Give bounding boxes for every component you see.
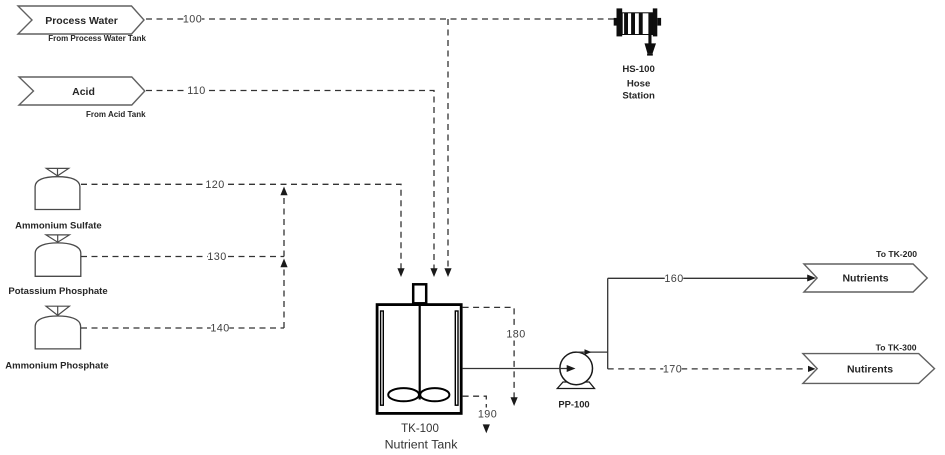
hopper Ammonium Phosphate [5,306,108,371]
svg-text:190: 190 [478,409,497,421]
svg-text:Nutirents: Nutirents [847,363,893,375]
svg-text:100: 100 [183,14,202,26]
wire stream 100 horizontal [146,13,614,26]
svg-text:140: 140 [210,323,229,335]
tank TK-100 [377,284,461,451]
hopper Potassium Phosphate [8,235,107,297]
hose station HS-100 [614,8,661,101]
svg-text:Ammonium Phosphate: Ammonium Phosphate [5,360,108,371]
wire merge 140 up into 130 [280,259,287,329]
hopper Ammonium Sulfate [15,168,102,231]
wire stream 190 [463,396,498,433]
off-page connector Nutirents To TK-300 [803,343,935,384]
svg-text:PP-100: PP-100 [558,399,589,410]
svg-text:120: 120 [205,179,224,191]
svg-text:Process Water: Process Water [45,15,118,27]
svg-text:Nutrients: Nutrients [842,273,888,285]
wire pump discharge [576,278,608,369]
svg-text:Ammonium Sulfate: Ammonium Sulfate [15,220,102,231]
off-page connector Acid [19,77,146,119]
svg-text:130: 130 [207,251,226,263]
wire stream 120 [81,178,405,277]
svg-text:From Acid Tank: From Acid Tank [86,110,146,119]
wire tank outlet to pump [463,365,576,372]
wire merge 130 up into 120 [280,187,287,257]
wire stream 100 branch down to tank [444,19,451,277]
svg-text:170: 170 [663,363,682,375]
wire stream 110 [146,84,438,277]
svg-text:TK-100: TK-100 [401,423,439,435]
svg-text:Station: Station [622,90,655,101]
svg-text:HS-100: HS-100 [622,64,655,75]
off-page connector Process Water [18,6,147,43]
wire stream 180 [463,307,526,406]
svg-text:110: 110 [187,85,205,97]
wire stream 140 [81,322,284,335]
pump PP-100 [557,352,594,410]
svg-text:Potassium Phosphate: Potassium Phosphate [8,286,107,297]
off-page connector Nutrients To TK-200 [804,249,927,292]
wire stream 130 [81,250,284,263]
wire stream 160 [608,272,816,285]
svg-text:To TK-200: To TK-200 [876,249,917,259]
svg-text:160: 160 [664,273,683,285]
svg-text:Nutrient Tank: Nutrient Tank [385,438,459,452]
svg-text:To TK-300: To TK-300 [876,343,917,353]
svg-text:180: 180 [506,329,525,341]
svg-text:From Process Water Tank: From Process Water Tank [48,34,146,43]
svg-text:Hose: Hose [627,78,650,89]
wire stream 170 [608,363,816,376]
svg-text:Acid: Acid [72,86,95,98]
